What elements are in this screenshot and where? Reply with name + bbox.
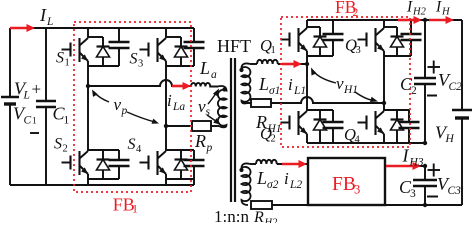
label vH1 (336, 74, 358, 96)
wire: leg A collector drop (87, 28, 89, 38)
svg-text:3: 3 (138, 59, 143, 70)
svg-text:H: H (441, 7, 451, 18)
current arrow IH2 (398, 16, 422, 24)
diode (S2 antiparallel) (97, 150, 110, 179)
current arrow IL (10, 24, 35, 32)
node: C2-C3 junction (423, 141, 427, 145)
node C (Q1/Q2 midpoint) (305, 62, 309, 66)
svg-text:L1: L1 (293, 85, 306, 97)
node: Q1 cell top bar (307, 26, 320, 28)
svg-text:L: L (258, 74, 269, 94)
svg-text:i: i (167, 91, 172, 110)
label Q3 (345, 36, 361, 57)
transistor S3 (IGBT) (140, 38, 167, 62)
label S4 (128, 136, 143, 155)
svg-text:1: 1 (65, 58, 70, 69)
svg-text:p: p (121, 105, 128, 117)
label C1 (53, 104, 70, 127)
transformer core (231, 58, 235, 202)
node D (Q3/Q4 midpoint) (382, 101, 386, 105)
capacitor (S1 snubber) (109, 28, 130, 66)
node: bottom wire junction (423, 203, 427, 207)
svg-text:R: R (253, 209, 264, 223)
label S2 (54, 136, 68, 155)
svg-text:2: 2 (63, 144, 68, 155)
arrow: vp to node B (127, 112, 159, 124)
wire: RH2 to FB3 bottom-left (272, 204, 308, 206)
wire: midpoint B to Rp (166, 125, 192, 127)
label S1 (56, 50, 70, 69)
wire: FB3 output to C3 node (385, 165, 425, 167)
current arrow iLa (172, 82, 191, 90)
capacitor C1 (36, 28, 56, 185)
node: S1 cell bottom bar (88, 65, 119, 67)
svg-text:HFT: HFT (217, 36, 251, 56)
svg-text:H1: H1 (343, 84, 358, 96)
wire: leg B emitter to bottom rail (166, 174, 194, 185)
resistor RH1 (251, 99, 271, 107)
transistor Q3 (IGBT) (358, 28, 385, 52)
transistor S1 (IGBT) (62, 38, 89, 62)
svg-text:S: S (54, 136, 62, 153)
svg-text:1:n:n: 1:n:n (214, 207, 249, 223)
wire: secondary1 bottom to RH1 (246, 102, 251, 104)
wire: bottom return (right) (385, 204, 462, 206)
wire: Lsigma2 to FB3 (277, 163, 308, 165)
capacitor (Q3 snubber) (401, 20, 422, 56)
diode (S1 antiparallel) (97, 37, 110, 66)
svg-text:4: 4 (355, 135, 361, 146)
wire: secondary2 bottom to RH2 (0, 0, 1, 1)
current arrow IH3 (386, 162, 421, 170)
current arrow iL2 (282, 160, 307, 168)
svg-text:p: p (206, 142, 213, 154)
svg-text:σ2: σ2 (267, 179, 279, 191)
capacitor (Q1 snubber) (323, 20, 344, 56)
svg-text:S: S (130, 51, 138, 68)
current arrow iL1 (282, 60, 302, 68)
label vp (114, 95, 128, 117)
wire: leg D collector drop (383, 20, 385, 28)
capacitor C3 (413, 166, 437, 205)
wire: FB2 bottom rail (307, 142, 425, 144)
label La (199, 58, 217, 81)
wire: FB2 top rail (307, 19, 462, 21)
arrow: vH1 to node D (355, 92, 378, 102)
svg-text:I: I (39, 5, 47, 25)
svg-text:a: a (211, 69, 217, 81)
svg-text:I: I (435, 0, 442, 16)
svg-text:3: 3 (410, 188, 416, 200)
capacitor (Q4 snubber) (399, 110, 420, 143)
inductor Lsigma1 (257, 60, 278, 64)
svg-text:+: + (32, 80, 42, 99)
label RH1 (255, 112, 282, 135)
svg-text:i: i (288, 75, 293, 94)
label iLa (167, 91, 185, 113)
label minus (C2) (427, 95, 437, 97)
svg-text:L: L (256, 168, 267, 188)
capacitor (Q2 snubber) (323, 110, 344, 143)
wire: RH1 to Q3 midpoint (with crossover hop) (271, 97, 384, 103)
svg-text:1: 1 (132, 202, 138, 216)
transistor S4 (IGBT) (140, 151, 167, 175)
inductor: transformer secondary winding 2 (242, 163, 251, 205)
node: S2 cell top bar (88, 149, 119, 151)
label IH (435, 0, 451, 18)
svg-text:S: S (56, 50, 64, 67)
svg-text:4: 4 (136, 144, 142, 155)
wire: DC-link bottom rail (left) (10, 184, 194, 186)
svg-text:1: 1 (32, 117, 37, 127)
battery VH (output) (452, 20, 472, 205)
svg-text:1: 1 (64, 115, 70, 127)
node: Q4 cell top bar (384, 109, 409, 111)
wire: Rp to primary winding (211, 125, 219, 127)
diode (S4 antiparallel) (175, 150, 188, 179)
label VC3 (437, 174, 461, 197)
transistor S2 (IGBT) (62, 151, 89, 175)
label iL1 (288, 75, 306, 97)
label 1:n:n (214, 207, 249, 226)
label minus (VC1 polarity) (30, 132, 39, 134)
svg-text:1: 1 (271, 45, 276, 56)
label vs (198, 97, 211, 118)
label plus (C3) (428, 164, 441, 177)
svg-text:2: 2 (353, 7, 359, 19)
wire: leg C emitter to bottom rail (306, 134, 308, 143)
svg-text:R: R (194, 131, 206, 151)
arrow: vH1 to node C (311, 68, 336, 84)
wire: leg C through midpoint (306, 51, 308, 111)
diode (Q1 antiparallel) (314, 27, 327, 56)
node: S4 cell bottom bar (166, 178, 194, 180)
svg-text:L2: L2 (289, 179, 302, 191)
label C3 (399, 177, 416, 200)
wire: leg B through midpoint (165, 61, 167, 151)
label Lsigma2 (256, 168, 279, 191)
diode (S3 antiparallel) (175, 37, 188, 66)
label RH2 (253, 209, 278, 229)
wire: leg D emitter to bottom rail (383, 134, 385, 143)
current arrow IH (429, 16, 454, 24)
inductor: transformer secondary winding 1 (242, 63, 251, 103)
wire: midpoint A to La (with crossover hop) (88, 80, 191, 86)
svg-text:L: L (199, 58, 210, 78)
svg-text:H2: H2 (264, 218, 279, 224)
svg-text:H2: H2 (412, 7, 427, 18)
wire: secondary2 top to Lsigma2 (250, 163, 256, 165)
arrow: vs to primary bottom (207, 115, 221, 125)
svg-text:La: La (172, 101, 185, 113)
svg-text:v: v (336, 74, 344, 93)
label minus (C3) (427, 196, 438, 198)
svg-text:3: 3 (354, 183, 360, 197)
svg-text:I: I (406, 0, 413, 16)
label Q2 (260, 124, 276, 145)
node B (bridge midpoint, leg B) (164, 124, 168, 128)
transistor Q2 (IGBT) (281, 111, 308, 135)
diode (Q2 antiparallel) (314, 110, 327, 143)
resistor Rp (192, 121, 211, 131)
node: S4 cell top bar (166, 149, 194, 151)
node: Q3 cell top bar (384, 26, 397, 28)
wire: leg D through midpoint (383, 51, 385, 111)
svg-text:i: i (284, 169, 289, 188)
capacitor C2 (414, 20, 436, 143)
node: S2 cell bottom bar (88, 178, 119, 180)
inductor: transformer primary winding (218, 86, 227, 127)
svg-text:L: L (46, 16, 53, 28)
boundary FB2 (dashed box) (281, 17, 410, 147)
node: IH3 junction (423, 164, 427, 168)
capacitor (S2 snubber) (109, 150, 130, 179)
arrow: vp to node A (92, 90, 109, 103)
node: top rail junction (423, 18, 427, 22)
label FB2 (335, 0, 359, 19)
wire: leg B collector drop (165, 28, 167, 38)
wire: leg C collector drop (306, 20, 308, 28)
capacitor (S4 snubber) (184, 150, 205, 179)
battery VL (input source) (1, 28, 19, 185)
polarity dot (secondary 2) (239, 168, 243, 172)
inductor La (191, 83, 218, 87)
label Rp (194, 131, 213, 154)
boundary FB1 (dashed box) (74, 22, 191, 192)
label VC2 (438, 70, 462, 93)
node: Q2 cell top bar (307, 109, 333, 111)
diode (Q3 antiparallel) (391, 27, 404, 56)
svg-text:3: 3 (356, 45, 361, 56)
wire: leg A to midpoint (87, 61, 89, 151)
label FB1 (113, 195, 138, 216)
label VC1 (13, 104, 37, 127)
svg-text:v: v (114, 95, 122, 114)
label IL (39, 5, 53, 28)
svg-text:2: 2 (411, 85, 417, 97)
label Q1 (260, 36, 276, 56)
inductor Lsigma2 (256, 160, 277, 164)
capacitor (S3 snubber) (184, 28, 205, 66)
transistor Q4 (IGBT) (358, 111, 385, 135)
svg-text:C2: C2 (449, 81, 463, 93)
wire: DC-link top rail (left) (10, 27, 194, 29)
svg-text:FB: FB (332, 174, 356, 195)
node: Q3 cell bottom bar (384, 55, 411, 57)
node: Q1 cell bottom bar (307, 55, 333, 57)
label HFT (217, 36, 251, 56)
svg-text:H3: H3 (409, 157, 424, 169)
label IH2 (406, 0, 427, 18)
label VH (435, 123, 455, 146)
block FB3 (308, 158, 385, 205)
label IH3 (402, 146, 424, 169)
svg-text:S: S (128, 136, 136, 153)
polarity dot (primary) (222, 87, 226, 91)
wire: Lsigma1 to Q1 midpoint (278, 63, 307, 65)
diode (Q4 antiparallel) (391, 110, 404, 143)
node: S3 cell bottom bar (166, 65, 194, 67)
label Q4 (344, 125, 361, 146)
node: S3 cell top bar (166, 36, 181, 38)
arrow: vs to primary top (208, 89, 219, 105)
label iL2 (284, 169, 302, 191)
label Lsigma1 (258, 74, 280, 97)
label VL+ (14, 79, 41, 102)
svg-text:H: H (445, 133, 455, 145)
svg-text:C3: C3 (448, 185, 462, 197)
wire: leg A emitter to bottom rail (87, 174, 89, 185)
polarity dot (secondary 1) (239, 68, 243, 72)
svg-text:I: I (402, 146, 410, 166)
wire: secondary1 top to Lsigma1 (250, 63, 257, 65)
node: S1 cell top bar (88, 36, 103, 38)
svg-text:L: L (23, 90, 30, 102)
label S3 (130, 51, 144, 70)
label C2 (400, 74, 417, 97)
resistor RH2 (251, 201, 272, 209)
node A (bridge midpoint, leg A) (86, 84, 90, 88)
label FB3 (332, 174, 360, 197)
svg-text:C: C (24, 115, 32, 127)
svg-text:2: 2 (271, 134, 276, 145)
label plus (C2) (428, 61, 441, 74)
svg-text:σ1: σ1 (269, 85, 280, 97)
transistor Q1 (IGBT) (281, 28, 308, 52)
